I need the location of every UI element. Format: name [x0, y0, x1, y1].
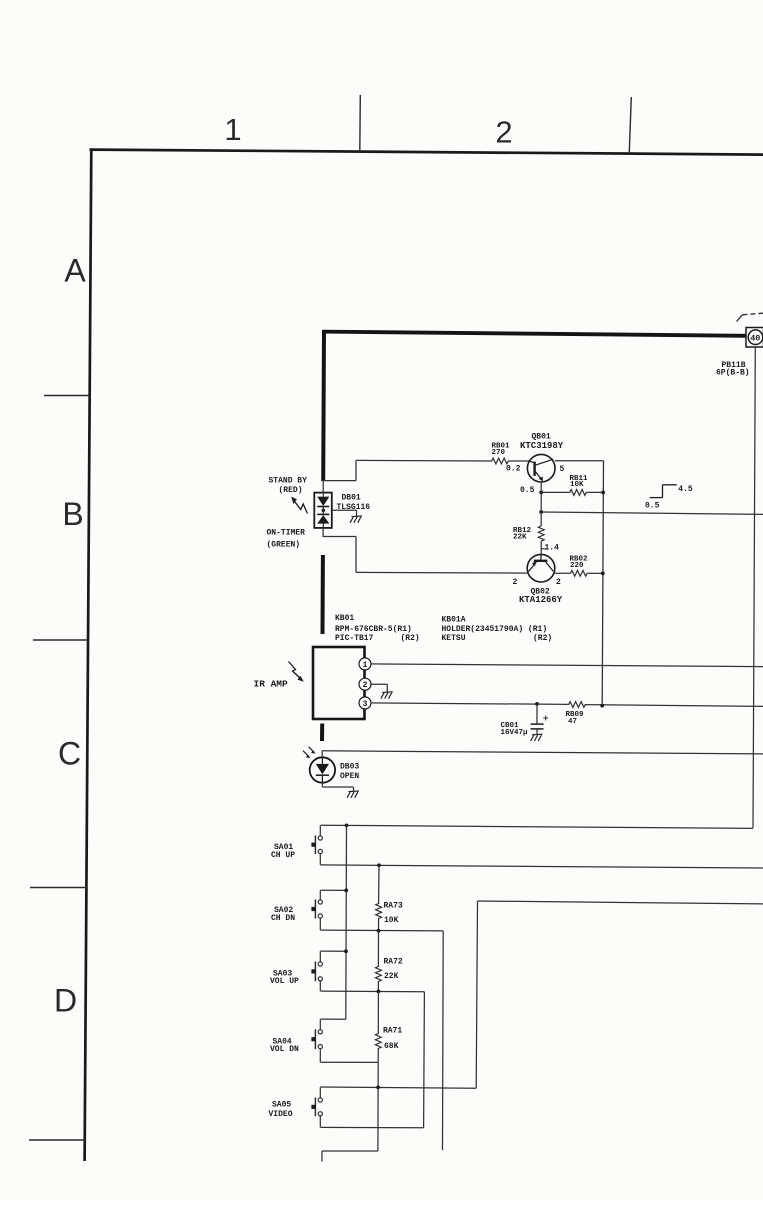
svg-text:ON-TIMER: ON-TIMER [267, 529, 306, 538]
node SA01 bottom junction [377, 863, 381, 867]
svg-text:RA71: RA71 [383, 1026, 402, 1035]
svg-text:(R2): (R2) [401, 634, 420, 643]
svg-text:OPEN: OPEN [340, 772, 359, 781]
svg-text:47: 47 [568, 718, 577, 726]
switch SA02 [311, 890, 322, 930]
node SA02 top junction [344, 889, 348, 893]
node SA03 top junction [344, 949, 348, 953]
svg-text:CH UP: CH UP [271, 851, 295, 860]
svg-text:220: 220 [570, 562, 584, 570]
capacitor CB01 [536, 704, 538, 724]
wire SA06 top partial [322, 1150, 378, 1152]
transistor QB02 [527, 554, 555, 582]
wire chain seg6 [377, 1048, 379, 1062]
node SA05 top junction [376, 1086, 380, 1090]
svg-text:KETSU: KETSU [442, 634, 466, 643]
svg-text:KB01: KB01 [335, 614, 354, 623]
svg-text:2: 2 [363, 681, 368, 690]
wire chain seg2 [378, 918, 380, 931]
svg-text:270: 270 [492, 449, 506, 457]
svg-text:4.5: 4.5 [678, 485, 693, 494]
svg-text:DB03: DB03 [340, 763, 359, 772]
node SA03 bottom junction [377, 990, 381, 994]
svg-text:0.5: 0.5 [645, 501, 660, 510]
connector pin 40 circle [748, 330, 763, 345]
svg-text:B: B [62, 496, 83, 532]
waveform annotation step [650, 497, 663, 499]
board boundary dashed vertical segment 3 [320, 724, 324, 742]
column tick right of 2 [629, 97, 631, 154]
svg-text:0.5: 0.5 [520, 486, 535, 495]
svg-text:STAND BY: STAND BY [269, 477, 308, 486]
board boundary dashed vertical segment 2 [321, 555, 325, 634]
svg-text:6P(B-B): 6P(B-B) [716, 369, 750, 378]
ground pin2 [381, 692, 393, 699]
svg-text:RPM-676CBR-5(R1): RPM-676CBR-5(R1) [335, 625, 412, 634]
svg-text:1: 1 [224, 112, 241, 147]
svg-text:22K: 22K [384, 972, 399, 981]
wire SA04 bottom [321, 1061, 379, 1063]
resistor RB11 [570, 490, 587, 496]
wire chain seg7 [377, 1062, 379, 1087]
column tick between 1 and 2 [359, 95, 362, 152]
wire chain seg1 [378, 865, 380, 904]
wire SA02 bottom drop [442, 931, 445, 1150]
svg-text:(GREEN): (GREEN) [267, 541, 301, 550]
svg-text:C: C [58, 736, 81, 772]
svg-text:0.2: 0.2 [506, 465, 521, 474]
resistor RB12 [538, 526, 544, 541]
svg-text:68K: 68K [384, 1042, 399, 1051]
wire SA01 bottom to right edge [321, 865, 763, 868]
IR AMP pin 3 circle [359, 697, 371, 709]
wire pin3 right part [585, 705, 763, 707]
IR AMP box KB01 [313, 647, 365, 719]
svg-text:1: 1 [363, 661, 368, 670]
switch SA03 [311, 951, 322, 991]
wire connector pin40 vertical [753, 347, 755, 828]
wire SA01 top [321, 825, 754, 828]
svg-text:PIC-TB17: PIC-TB17 [335, 634, 374, 643]
wire SA05 top [321, 1087, 477, 1088]
tick 1.4 [541, 548, 546, 550]
node SA01 top junction [345, 824, 349, 828]
dual LED DB01 [314, 493, 332, 528]
wire switch column vertical [345, 825, 348, 1019]
wire pin3 left part [371, 703, 569, 705]
svg-text:(RED): (RED) [279, 486, 303, 495]
svg-text:2: 2 [556, 578, 561, 587]
resistor RB02 [571, 570, 588, 576]
wire DB03 bottom to ground [321, 783, 323, 787]
wire SA02 top [321, 889, 347, 891]
svg-text:40: 40 [750, 333, 760, 343]
switch SA05 [311, 1087, 322, 1127]
IR AMP light arrow [289, 662, 302, 680]
svg-text:DB01: DB01 [342, 493, 361, 502]
wire SA04 top [321, 1018, 346, 1020]
svg-text:RA72: RA72 [384, 958, 403, 967]
transistor QB01 [527, 454, 555, 482]
svg-text:VOL UP: VOL UP [270, 977, 299, 986]
wire SA06 stub [321, 1151, 323, 1162]
wire DB01 anode top path [322, 481, 324, 493]
svg-text:2: 2 [495, 115, 512, 150]
wire QB02 emitter left [356, 571, 527, 574]
wire pin1 to right edge [371, 664, 763, 667]
ground CB01 [531, 734, 543, 741]
resistor RB01 [492, 458, 509, 464]
node QB01 emitter junction [539, 491, 543, 495]
svg-text:HOLDER(23451790A) (R1): HOLDER(23451790A) (R1) [442, 625, 548, 634]
ground DB01 middle tap [350, 516, 362, 523]
svg-text:SA05: SA05 [272, 1101, 291, 1110]
page border left [85, 149, 92, 1162]
svg-text:VOL DN: VOL DN [270, 1045, 299, 1054]
resistor RA73 [376, 904, 382, 919]
resistor RA72 [376, 967, 382, 982]
wire chain seg3 [377, 931, 379, 967]
svg-text:RA73: RA73 [384, 901, 403, 910]
svg-text:IR AMP: IR AMP [254, 679, 289, 690]
svg-text:KB01A: KB01A [442, 616, 466, 625]
ground DB03 [347, 791, 359, 798]
connector bracket dashed [737, 315, 743, 322]
svg-text:10K: 10K [570, 481, 584, 489]
wire bus from SA05 to right edge [478, 901, 763, 904]
row tick D-E [29, 1139, 85, 1141]
svg-text:VIDEO: VIDEO [269, 1110, 293, 1119]
wire SA02 bottom [321, 929, 444, 932]
svg-text:KTC3198Y: KTC3198Y [520, 441, 564, 451]
svg-text:3: 3 [363, 700, 368, 709]
node RB11 rail junction [601, 491, 605, 495]
wire RB11 to rail [586, 491, 603, 493]
wire DB01 cathode bottom path [322, 528, 324, 537]
wire SA05 bottom [321, 1126, 424, 1128]
IR AMP pin 1 circle [359, 658, 371, 670]
wire SA05 riser to bus [476, 901, 477, 1088]
resistor RA71 [375, 1034, 381, 1049]
wire SA06 chain continue [377, 1087, 379, 1151]
wire to RB11 [541, 491, 570, 493]
node RB02 rail junction [601, 572, 605, 576]
board boundary dashed vertical segment 1 [321, 330, 326, 481]
wire rail vertical x603 [602, 461, 603, 706]
wire chain seg4 [377, 981, 379, 991]
svg-text:16V47µ: 16V47µ [501, 729, 529, 737]
row tick A-B [44, 395, 90, 397]
page border top [90, 150, 763, 155]
capacitor CB01 plus sign [543, 717, 548, 719]
row tick B-C [33, 639, 89, 641]
connector PB11B pin box [746, 328, 763, 348]
switch SA01 [311, 825, 322, 865]
wire RB12 to QB02 base [540, 541, 542, 555]
svg-text:1.4: 1.4 [545, 543, 560, 552]
svg-text:(R2): (R2) [533, 634, 552, 643]
svg-text:22K: 22K [513, 534, 527, 542]
wire pin2 to ground [371, 683, 387, 685]
IR AMP pin 2 circle [359, 678, 371, 690]
resistor RB09 [569, 702, 586, 708]
svg-text:A: A [64, 253, 86, 289]
svg-text:10K: 10K [384, 916, 399, 925]
wire DB01 middle tap [332, 509, 357, 511]
svg-text:5: 5 [560, 465, 565, 474]
node bias junction [539, 510, 543, 514]
wire RB02 to rail [587, 572, 603, 574]
wire RB01 to QB01 base [508, 460, 528, 462]
svg-text:D: D [54, 983, 77, 1019]
wire DB03 top to right edge [322, 751, 763, 754]
wire bias line to right edge [541, 512, 763, 514]
wire QB02 collector to RB02 [555, 572, 571, 574]
photo diode DB03 [310, 757, 335, 782]
wire SA03 top [321, 950, 347, 952]
board boundary top thick line [322, 332, 746, 336]
wire QB01 emitter stub [540, 482, 542, 492]
wire base feed QB01 [356, 459, 492, 462]
wire QB01 collector to rail [555, 460, 604, 462]
svg-text:2: 2 [513, 578, 518, 587]
svg-text:KTA1266Y: KTA1266Y [519, 595, 563, 605]
switch SA04 [311, 1019, 322, 1062]
wire junction to RB12 [540, 512, 542, 526]
DB01 light arrow [295, 502, 308, 514]
svg-text:CH DN: CH DN [271, 914, 295, 923]
node SA02 bottom junction [377, 929, 381, 933]
wire SA03 bottom drop [423, 992, 426, 1128]
DB03 light arrows [303, 751, 309, 757]
node rail to pin3 junction [600, 704, 604, 708]
node CB01 tap [535, 702, 539, 706]
row tick C-D [30, 887, 87, 889]
wire chain seg5 [377, 991, 379, 1034]
wire SA03 bottom [321, 990, 425, 993]
wire emitter junction down [540, 492, 542, 512]
